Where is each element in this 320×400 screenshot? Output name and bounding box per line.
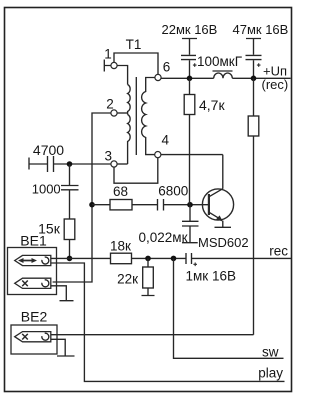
head BE1 universal head symbol — [15, 255, 51, 265]
svg-text:6800: 6800 — [158, 184, 188, 199]
svg-text:rec: rec — [269, 244, 288, 259]
head BE1 erase head symbol — [15, 278, 51, 288]
wire erase head bottom lead to common bar — [51, 286, 74, 301]
wire rec line — [192, 257, 292, 259]
svg-text:1мк 16В: 1мк 16В — [186, 268, 236, 283]
pin 1 — [111, 62, 117, 68]
pin 4 — [155, 152, 161, 158]
wire BE2 bottom lead to common bar — [51, 339, 75, 356]
wire pin2 tap — [117, 112, 128, 114]
capacitor C 1000 — [61, 164, 79, 219]
junction dot sw branch — [171, 256, 177, 262]
T1 primary winding top half — [128, 85, 131, 115]
svg-text:22к: 22к — [117, 272, 138, 287]
svg-text:4,7к: 4,7к — [199, 97, 225, 113]
capacitor C 4700 input — [29, 156, 111, 172]
wire 6800 to base node — [164, 204, 210, 206]
wire pin2 down to erase head BE1 — [53, 113, 111, 282]
capacitor C 1мк 16В — [186, 253, 192, 264]
svg-text:68: 68 — [113, 184, 128, 199]
head BE2 box — [11, 325, 57, 354]
svg-text:3: 3 — [105, 149, 113, 164]
transistor VT MSD602 — [198, 155, 249, 250]
junction dot rail/22мк/4,7к — [187, 76, 193, 82]
resistor R right (bias) — [253, 78, 255, 334]
svg-text:4: 4 — [162, 133, 170, 148]
capacitor C 22мк 16В — [162, 22, 218, 78]
resistor R 4,7к — [189, 78, 191, 204]
T1 primary winding bottom half — [128, 115, 131, 165]
head BE1 box — [8, 248, 57, 295]
capacitor C 47мк 16В — [233, 22, 289, 78]
svg-text:BE2: BE2 — [21, 309, 48, 325]
svg-text:100мкГ: 100мкГ — [197, 54, 243, 69]
wire pin1 to primary top — [117, 66, 128, 85]
junction dot 22к — [145, 256, 151, 262]
svg-text:play: play — [258, 366, 283, 381]
pin 2 — [111, 110, 117, 116]
pin 6 — [155, 74, 161, 80]
svg-text:6: 6 — [163, 60, 171, 75]
wire pin4 to collector — [161, 154, 223, 156]
wire head1 bottom lead to play line — [51, 263, 285, 381]
wire 68 to 6800 — [132, 204, 158, 206]
T1 secondary winding — [142, 78, 155, 155]
resistor R 68 — [110, 200, 132, 210]
svg-text:4700: 4700 — [33, 142, 64, 158]
svg-text:1000: 1000 — [32, 182, 61, 197]
junction dot 4700/1000 — [67, 161, 73, 167]
svg-text:0,022мк: 0,022мк — [139, 230, 188, 245]
resistor R 18к — [111, 253, 132, 264]
wire head1 top lead to dot and 18к — [51, 257, 111, 259]
wire pin1 to pin6 top link — [114, 53, 158, 75]
inductor L1 100мкГ — [214, 73, 233, 78]
svg-text:sw: sw — [262, 344, 279, 359]
svg-text:2: 2 — [106, 97, 114, 112]
wire top rail +U — [161, 77, 291, 79]
resistor R 15к — [64, 219, 75, 240]
T1 core — [135, 77, 137, 155]
junction dot 15к/head/18к — [67, 256, 73, 262]
wire BE2 top lead to bias resistor — [51, 334, 254, 336]
pin 1 stub terminal — [104, 60, 111, 72]
svg-text:BE1: BE1 — [20, 233, 47, 249]
inductor core bar — [213, 70, 233, 72]
pin 3 — [111, 161, 117, 167]
wire 18к to 1мк — [132, 257, 187, 259]
resistor R 22к — [142, 258, 155, 295]
junction dot base node — [187, 202, 193, 208]
head BE2 erase head symbol — [15, 332, 51, 342]
capacitor C 6800 — [158, 199, 164, 211]
junction dot rail/47мк/R — [251, 76, 257, 82]
svg-text:18к: 18к — [110, 238, 131, 253]
svg-text:(rec): (rec) — [262, 77, 289, 92]
wire winding bottom to pin3 — [117, 163, 128, 165]
svg-text:22мк 16В: 22мк 16В — [162, 22, 218, 37]
junction dot pin2-line/68 row — [89, 202, 95, 208]
wire sw line — [174, 258, 284, 358]
svg-text:47мк 16В: 47мк 16В — [233, 22, 289, 37]
capacitor C 0,022мк — [182, 205, 199, 243]
svg-text:1: 1 — [104, 47, 112, 62]
wire 68 row left — [92, 204, 110, 206]
wire pin3-pin4 bottom link — [114, 158, 158, 184]
svg-text:MSD602: MSD602 — [198, 235, 249, 250]
svg-text:T1: T1 — [126, 37, 142, 52]
